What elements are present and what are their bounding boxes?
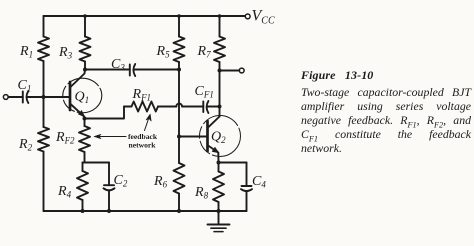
- capacitor C2: [104, 163, 115, 212]
- resistor R4: [77, 163, 88, 212]
- node R4 ground junction: [81, 209, 85, 213]
- wire bottom ground rail: [44, 210, 247, 212]
- wire R5 bottom to bias node: [178, 62, 180, 70]
- value label R8: [194, 185, 209, 201]
- svg-text:C3: C3: [111, 57, 125, 73]
- resistor R3: [80, 37, 91, 62]
- svg-text:Q2: Q2: [211, 130, 226, 146]
- wire C3 to stage-2 bias node: [134, 69, 179, 71]
- svg-text:R7: R7: [197, 44, 212, 60]
- wire hop to CF1: [182, 106, 203, 108]
- svg-text:R8: R8: [194, 185, 209, 201]
- wire R7 bottom to output node: [219, 62, 221, 71]
- value label R2: [18, 137, 33, 153]
- svg-text:RF1: RF1: [132, 87, 152, 103]
- value label C2: [114, 173, 128, 189]
- svg-text:R1: R1: [19, 44, 33, 60]
- node R6 ground junction: [177, 209, 181, 213]
- capacitor CF1: [203, 101, 208, 113]
- node C2 ground junction: [107, 209, 111, 213]
- svg-text:R2: R2: [18, 137, 33, 153]
- resistor RF1: [124, 102, 176, 112]
- node R7 top junction: [218, 14, 222, 18]
- wire output node stub: [220, 70, 240, 72]
- resistor R6: [174, 163, 185, 194]
- resistor R2: [38, 127, 49, 152]
- wire emitter to RF1 corner: [85, 107, 125, 119]
- value label R5: [156, 44, 171, 60]
- value label C3: [111, 57, 125, 73]
- svg-text:C2: C2: [114, 173, 128, 189]
- wire R3 bottom to collector node: [84, 62, 86, 70]
- capacitor C1: [23, 91, 29, 103]
- value label R4: [57, 184, 72, 200]
- value label RF2: [55, 130, 75, 146]
- value label Q1: [75, 90, 90, 106]
- svg-text:C1: C1: [18, 78, 32, 94]
- resistor R7: [214, 37, 225, 63]
- node Q1 collector junction: [83, 68, 87, 72]
- node Q2 emitter junction: [217, 161, 221, 165]
- value label CF1: [195, 84, 214, 100]
- capacitor C3: [130, 64, 135, 76]
- power Vcc terminal: [245, 8, 275, 27]
- value label Q2: [211, 130, 226, 146]
- node R5 top junction: [177, 14, 181, 18]
- node R8 ground junction: [217, 209, 221, 213]
- svg-text:R3: R3: [58, 45, 73, 61]
- node Q2 base junction: [177, 135, 181, 139]
- wire R6 bottom lead: [178, 194, 180, 212]
- node stage-2 bias junction: [177, 68, 181, 72]
- input terminal: [3, 95, 8, 100]
- wire R2 bottom to ground rail: [43, 152, 45, 212]
- value label R6: [153, 174, 168, 190]
- annotation feedback network: [94, 114, 158, 150]
- node CF1 output junction: [218, 105, 222, 109]
- wire emitter to C4 corner: [219, 162, 247, 164]
- value label R7: [197, 44, 212, 60]
- wire hop over bias line: [176, 104, 182, 107]
- svg-text:R4: R4: [57, 184, 72, 200]
- wire input to C1: [8, 96, 23, 98]
- wire bias node down to Q2 base node: [178, 70, 180, 137]
- ground: [208, 211, 230, 232]
- transistor Q2: [200, 116, 241, 163]
- svg-text:VCC: VCC: [252, 8, 275, 27]
- value label C4: [252, 174, 266, 190]
- resistor R8: [213, 163, 224, 212]
- wire C1 to Q1 base: [27, 96, 69, 98]
- value label C1: [18, 78, 32, 94]
- value label R1: [19, 44, 33, 60]
- resistor R1: [38, 37, 49, 62]
- value label RF1: [132, 87, 152, 103]
- svg-text:C4: C4: [252, 174, 266, 190]
- svg-text:Q1: Q1: [75, 90, 90, 106]
- resistor RF2: [79, 119, 90, 163]
- figure caption: [301, 68, 471, 156]
- resistor R5: [174, 37, 185, 63]
- wire collector node to C3: [85, 69, 130, 71]
- svg-text:RF2: RF2: [55, 130, 75, 146]
- wire output node down to Q2 collector: [219, 71, 221, 117]
- node R3 top junction: [83, 14, 87, 18]
- node Q1 emitter junction: [83, 117, 87, 121]
- svg-text:CF1: CF1: [195, 84, 214, 100]
- svg-text:R6: R6: [153, 174, 168, 190]
- node output junction: [218, 69, 222, 73]
- svg-text:network: network: [129, 141, 157, 150]
- capacitor C4: [241, 163, 252, 212]
- wire base node to R6: [178, 137, 180, 164]
- svg-text:R5: R5: [156, 44, 171, 60]
- wire top supply rail: [44, 15, 246, 17]
- node base of Q1 junction: [42, 95, 46, 99]
- wire R7 top lead: [219, 16, 221, 37]
- wire CF1 to output line: [207, 106, 219, 108]
- output terminal: [239, 68, 244, 73]
- wire R1 bottom to base node: [43, 61, 45, 97]
- wire Q2 base stub: [179, 136, 207, 138]
- wire R5 top lead: [178, 16, 180, 37]
- transistor Q1: [63, 70, 102, 119]
- wire base node to R2: [43, 97, 45, 127]
- wire emitter net node bar: [83, 162, 110, 164]
- value label R3: [58, 45, 73, 61]
- wire R3 top lead: [84, 16, 86, 37]
- wire R1 top lead: [43, 16, 45, 37]
